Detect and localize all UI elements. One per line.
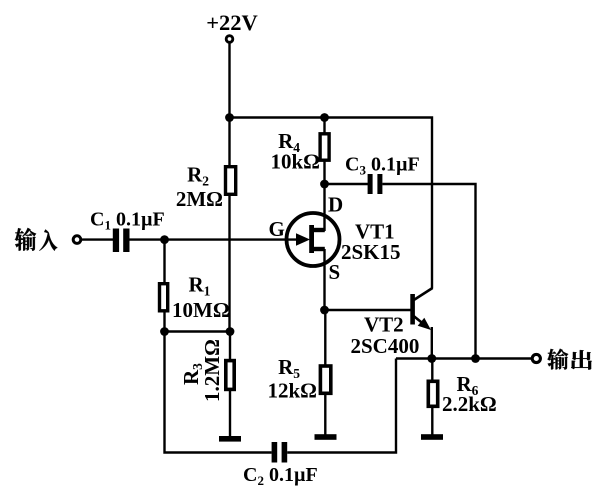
wire bias node down and along bottom to C2 bbox=[165, 332, 272, 453]
junction bias node right bbox=[226, 327, 235, 336]
wire source node to VT2 base bbox=[325, 309, 411, 311]
svg-text:D: D bbox=[328, 193, 343, 217]
resistor R3 1.2MΩ bbox=[179, 339, 234, 402]
wire R1 branch bbox=[163, 240, 165, 332]
svg-text:C3 0.1µF: C3 0.1µF bbox=[345, 154, 420, 178]
resistor R2 2MΩ bbox=[176, 163, 236, 212]
svg-text:12kΩ: 12kΩ bbox=[268, 379, 318, 403]
input terminal bbox=[73, 236, 81, 244]
resistor R4 10kΩ bbox=[271, 129, 330, 174]
transistor VT1 2SK15 bbox=[287, 213, 401, 266]
junction rail at R2 top bbox=[225, 113, 234, 122]
wire R4 branch (rail to drain node) bbox=[323, 118, 325, 185]
svg-text:2SK15: 2SK15 bbox=[341, 240, 401, 264]
resistor R5 12kΩ bbox=[268, 355, 331, 403]
capacitor C2 0.1µF bbox=[243, 442, 318, 488]
svg-text:VT2: VT2 bbox=[364, 313, 404, 337]
resistor R1 10MΩ bbox=[160, 273, 230, 323]
ground R6 bbox=[421, 434, 443, 440]
capacitor C3 0.1µF bbox=[345, 154, 420, 195]
wire +22V rail across and down to VT2 collector bbox=[230, 118, 433, 289]
svg-text:S: S bbox=[329, 260, 341, 284]
svg-text:10kΩ: 10kΩ bbox=[271, 150, 321, 174]
svg-text:C2 0.1µF: C2 0.1µF bbox=[243, 464, 318, 488]
wire R5 branch bbox=[324, 310, 326, 436]
wire VT2 emitter bbox=[431, 327, 433, 359]
ground R5 bbox=[315, 434, 337, 440]
junction emitter / R6 bbox=[427, 354, 436, 363]
output terminal bbox=[532, 354, 540, 362]
wire bias node horizontal bbox=[165, 330, 231, 332]
svg-text:2MΩ: 2MΩ bbox=[176, 187, 223, 211]
wire C1 to gate node bbox=[130, 238, 165, 240]
wire output line bbox=[396, 357, 532, 359]
wire R6 branch bbox=[431, 359, 433, 436]
wire gate bbox=[165, 238, 299, 240]
svg-text:1.2MΩ: 1.2MΩ bbox=[200, 339, 224, 402]
ground R3 bbox=[219, 436, 241, 442]
input label 输入 bbox=[15, 228, 58, 251]
junction source node bbox=[320, 306, 329, 315]
svg-text:G: G bbox=[269, 217, 285, 241]
junction rail at R4 top bbox=[320, 113, 329, 122]
wire C2 to output riser bbox=[287, 359, 396, 453]
junction VT1 drain node bbox=[320, 180, 329, 189]
svg-text:10MΩ: 10MΩ bbox=[172, 298, 230, 322]
svg-text:C1 0.1µF: C1 0.1µF bbox=[90, 209, 165, 233]
resistor R6 2.2kΩ bbox=[428, 372, 496, 416]
wire VT1 source bbox=[323, 249, 325, 310]
wire input terminal to C1 bbox=[82, 238, 113, 240]
transistor VT2 2SC400 bbox=[351, 288, 433, 358]
output label 输出 bbox=[547, 349, 592, 370]
svg-text:+22V: +22V bbox=[206, 10, 258, 35]
junction gate node bbox=[160, 235, 169, 244]
wire C3 to output node bbox=[382, 184, 475, 359]
wire VT1 drain bbox=[323, 184, 325, 231]
wire +22V down through R2 to bias node bbox=[228, 43, 230, 332]
wire drain node to C3 bbox=[325, 183, 369, 185]
svg-text:2SC400: 2SC400 bbox=[351, 334, 420, 358]
capacitor C1 0.1µF bbox=[90, 209, 165, 253]
power terminal +22V bbox=[206, 10, 258, 42]
svg-text:2.2kΩ: 2.2kΩ bbox=[442, 392, 497, 416]
junction bias node left bbox=[160, 327, 169, 336]
junction C3 feedback at output bbox=[471, 354, 480, 363]
wire R3 branch bbox=[229, 332, 231, 437]
